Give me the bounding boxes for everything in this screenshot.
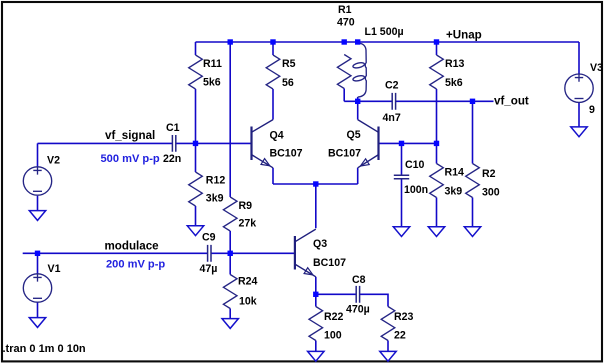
- wire C9 to Q3 base: [211, 252, 295, 254]
- svg-text:22n: 22n: [163, 153, 181, 165]
- wire Q5 emitter drop: [357, 168, 359, 184]
- wire top supply rail: [196, 41, 580, 43]
- svg-text:10k: 10k: [239, 296, 257, 308]
- wire Q3 collector riser: [315, 184, 317, 228]
- wire R1 bottom leg: [343, 89, 345, 102]
- wire L1 bottom stub: [357, 97, 359, 101]
- svg-text:4n7: 4n7: [383, 112, 401, 124]
- svg-text:27k: 27k: [239, 218, 257, 230]
- voltage source V2: [23, 166, 51, 195]
- svg-text:470: 470: [337, 17, 355, 29]
- wire V1 bottom stub: [37, 302, 39, 317]
- svg-text:47µ: 47µ: [200, 263, 218, 275]
- svg-text:R11: R11: [203, 58, 222, 70]
- wire modulace left segment: [23, 252, 208, 254]
- svg-text:R23: R23: [394, 311, 414, 323]
- resistor R22: [309, 307, 323, 341]
- wire R2 bottom stub: [472, 198, 474, 227]
- wire R14 bottom stub: [436, 198, 438, 227]
- svg-text:BC107: BC107: [313, 257, 346, 269]
- svg-text:C9: C9: [202, 232, 216, 244]
- ground R2: [464, 227, 480, 237]
- wire V3 bottom stub: [578, 102, 580, 127]
- wire R5 bottom to Q4 collector: [272, 89, 274, 120]
- wire C8 to R23 corner: [360, 294, 388, 306]
- resistor R2: [466, 164, 480, 198]
- resistor R13: [430, 55, 444, 89]
- wire V2 riser: [37, 143, 39, 166]
- ground R14: [428, 227, 444, 237]
- svg-text:Q4: Q4: [270, 130, 284, 142]
- wire R5 top stub: [272, 42, 274, 55]
- wire vf_signal left segment V2 to C1: [38, 142, 173, 144]
- ground R23: [380, 351, 396, 361]
- wire R22 bottom stub: [315, 341, 317, 352]
- inductor L1: [352, 43, 366, 97]
- wire C10 bottom stub: [401, 179, 403, 227]
- svg-text:300: 300: [482, 187, 500, 199]
- transistor Q4: [252, 120, 274, 168]
- wire V1 riser: [37, 253, 39, 273]
- wire R24 top stub: [229, 253, 231, 274]
- svg-text:200 mV p-p: 200 mV p-p: [106, 258, 165, 270]
- svg-text:100n: 100n: [404, 184, 428, 196]
- wire V2 bottom stub: [37, 196, 39, 211]
- wire R12 bottom stub: [195, 206, 197, 226]
- svg-text:V1: V1: [48, 263, 61, 275]
- svg-text:vf_signal: vf_signal: [105, 129, 155, 142]
- wire R2 top leg: [472, 101, 474, 163]
- capacitor C8: [356, 286, 359, 303]
- wire x=230 rail to R9: [229, 42, 231, 197]
- svg-text:3k9: 3k9: [445, 185, 463, 197]
- ground V1: [29, 318, 45, 328]
- svg-text:modulace: modulace: [105, 239, 160, 252]
- wire Q4 emitter drop: [272, 168, 274, 184]
- resistor R9: [223, 197, 237, 231]
- voltage source V3: [565, 73, 593, 102]
- resistor R14: [430, 164, 444, 198]
- wire C2 right to vf_out: [396, 100, 494, 102]
- transistor Q3: [295, 229, 316, 277]
- ground C10: [393, 227, 409, 237]
- svg-text:R2: R2: [482, 168, 496, 180]
- svg-text:.tran 0 1m 0 10n: .tran 0 1m 0 10n: [3, 343, 86, 355]
- resistor R23: [381, 307, 395, 341]
- svg-text:C8: C8: [352, 274, 366, 286]
- svg-text:22: 22: [394, 330, 406, 342]
- svg-text:R22: R22: [324, 311, 344, 323]
- svg-text:R12: R12: [206, 175, 226, 187]
- resistor R5: [266, 55, 280, 89]
- wire R24 bottom stub: [229, 309, 231, 319]
- capacitor C9: [208, 245, 211, 262]
- svg-text:V3: V3: [590, 62, 603, 74]
- svg-text:R5: R5: [282, 58, 296, 70]
- svg-text:R1: R1: [338, 4, 352, 16]
- wire junction to C8: [316, 293, 356, 295]
- svg-text:5k6: 5k6: [203, 77, 221, 89]
- svg-text:100: 100: [324, 330, 342, 342]
- resistor R1: [337, 55, 351, 89]
- wire R13 top stub: [436, 42, 438, 55]
- svg-text:C1: C1: [166, 122, 180, 134]
- capacitor C1: [172, 135, 175, 152]
- ground R12: [187, 226, 203, 236]
- svg-text:vf_out: vf_out: [494, 94, 529, 107]
- wire tank bottom to C2: [344, 100, 392, 102]
- ground V2: [29, 211, 45, 221]
- svg-text:56: 56: [282, 77, 294, 89]
- wire C1 to Q4 base: [176, 142, 252, 144]
- ground R22: [308, 351, 324, 361]
- wire emitter join Q4-Q5: [273, 183, 358, 185]
- svg-text:Q3: Q3: [313, 238, 327, 250]
- svg-text:9: 9: [589, 104, 595, 116]
- svg-text:C2: C2: [385, 80, 399, 92]
- svg-text:Q5: Q5: [347, 129, 361, 141]
- wire R22 top stub: [315, 294, 317, 306]
- svg-text:+Unap: +Unap: [446, 29, 482, 42]
- svg-text:R14: R14: [445, 167, 465, 179]
- svg-text:C10: C10: [405, 159, 425, 171]
- ground R24: [222, 319, 238, 329]
- wire R13 bottom to base node: [436, 89, 438, 143]
- wire Q3 emitter drop: [315, 277, 317, 295]
- capacitor C2: [392, 93, 395, 110]
- capacitor C10 (vertical): [394, 175, 409, 179]
- wire R11 top stub: [195, 42, 197, 55]
- svg-text:500 mV p-p: 500 mV p-p: [101, 153, 160, 165]
- svg-text:R24: R24: [238, 276, 258, 288]
- resistor R11: [189, 55, 203, 89]
- wire Q5 base to divider: [379, 142, 437, 144]
- svg-text:5k6: 5k6: [445, 77, 463, 89]
- svg-text:R13: R13: [445, 58, 465, 70]
- resistor R12: [189, 172, 203, 206]
- svg-text:3k9: 3k9: [206, 193, 224, 205]
- svg-text:BC107: BC107: [270, 147, 303, 159]
- svg-text:V2: V2: [47, 155, 60, 167]
- transistor Q5 (mirrored): [358, 120, 379, 168]
- wire R9 bottom to modulace node: [229, 231, 231, 253]
- resistor R24: [223, 275, 237, 309]
- wire Q5 collector riser: [357, 101, 359, 119]
- wire V3 top drop: [578, 42, 580, 74]
- svg-text:L1 500µ: L1 500µ: [365, 26, 404, 38]
- svg-text:R9: R9: [239, 200, 253, 212]
- wire R12 top stub: [195, 143, 197, 172]
- wire R11 bottom to vf_signal node: [195, 89, 197, 143]
- wire C10 top stub: [401, 143, 403, 175]
- svg-text:470µ: 470µ: [346, 303, 370, 315]
- voltage source V1: [23, 273, 51, 302]
- wire R23 bottom stub: [387, 341, 389, 352]
- ground V3: [571, 127, 587, 137]
- wire base node to R14: [436, 143, 438, 163]
- svg-text:BC107: BC107: [328, 147, 361, 159]
